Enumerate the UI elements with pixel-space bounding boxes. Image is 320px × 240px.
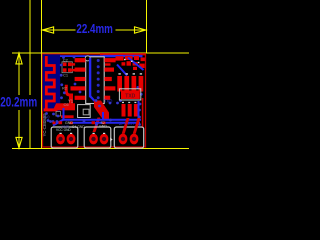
arrow down of 20.2mm bbox=[16, 137, 22, 148]
IC via column bbox=[97, 59, 100, 99]
arrow left of 22.4mm bbox=[42, 27, 53, 33]
connector P3 box bbox=[114, 127, 143, 148]
crystal Y1 inner bbox=[83, 109, 89, 115]
connector P1 box bbox=[51, 127, 78, 148]
connector P3 pad2 bbox=[130, 134, 139, 145]
red diagonal into P2 pad bbox=[93, 118, 101, 133]
dimension line vertical 20.2mm bbox=[18, 53, 20, 96]
connector P2 pad2 bbox=[100, 134, 109, 145]
arrow up of 20.2mm bbox=[16, 53, 22, 64]
polarity diamond bbox=[110, 138, 112, 142]
svg-text:S2: S2 bbox=[101, 121, 105, 125]
extent line vertical board-left bbox=[41, 0, 43, 149]
white marks above D1 pads bbox=[122, 102, 136, 103]
svg-text:20.2mm: 20.2mm bbox=[0, 94, 37, 109]
red wedge trace bbox=[94, 101, 109, 120]
traces to IC pads bbox=[72, 63, 76, 65]
svg-text:YC-CB0809: YC-CB0809 bbox=[42, 113, 48, 136]
header J1 vertical bars bbox=[117, 76, 143, 92]
svg-text:R2: R2 bbox=[62, 86, 68, 91]
extent line vertical left-outer bbox=[12, 0, 189, 149]
svg-text:Y1: Y1 bbox=[68, 99, 74, 104]
crystal Y1 outline bbox=[78, 105, 91, 118]
connector P1 pad2 bbox=[67, 134, 76, 145]
connector P3 pad1 bbox=[119, 134, 128, 145]
IC left pads 5 rows bbox=[71, 58, 86, 100]
tantalum cap D1 red body bbox=[121, 90, 140, 99]
arrow right of 22.4mm bbox=[135, 27, 146, 33]
svg-text:GND: GND bbox=[62, 125, 70, 129]
antenna meander trace bbox=[46, 56, 54, 110]
blue diagonal out of IC bbox=[90, 96, 104, 111]
connector P2 box bbox=[84, 127, 111, 148]
extent line vertical board-right bbox=[145, 0, 147, 53]
svg-text:2PY-KIT: 2PY-KIT bbox=[119, 121, 135, 126]
IC U1 body bbox=[86, 57, 105, 104]
connector P1 pad1 bbox=[56, 134, 65, 145]
IC right pads 5 rows bbox=[104, 58, 115, 100]
vias bbox=[45, 56, 141, 126]
IC inner blue stripe bbox=[89, 58, 91, 98]
top-right pad cluster bbox=[116, 56, 145, 70]
white plus marks above pads bbox=[60, 133, 106, 134]
svg-text:C1: C1 bbox=[63, 72, 69, 77]
header white marks bbox=[118, 73, 142, 74]
board outline top-right thick segment bbox=[100, 53, 146, 55]
red trace left-bottom bbox=[61, 115, 74, 118]
IC pin1 circle bbox=[85, 56, 90, 61]
svg-text:GND: GND bbox=[99, 125, 107, 129]
white specks in cluster bbox=[124, 59, 139, 63]
red trace right-edge bbox=[142, 98, 144, 128]
svg-text:TXD: TXD bbox=[125, 93, 135, 99]
antenna bottom rung bbox=[44, 108, 58, 111]
dimension text 22.4mm bbox=[76, 23, 115, 36]
vias near D1 bbox=[119, 86, 143, 102]
extent line horizontal top bbox=[12, 52, 189, 54]
board outline bbox=[43, 54, 146, 147]
dimension text 20.2mm bbox=[0, 95, 39, 110]
antenna feed thick trace bbox=[53, 104, 74, 111]
capacitor block C1/C2 2x2 pads bbox=[63, 63, 75, 72]
red T stub to feed bar bbox=[69, 95, 73, 104]
connector P2 pad1 bbox=[89, 134, 98, 145]
extent line horizontal bottom bbox=[12, 148, 189, 150]
svg-text:C4 GND: C4 GND bbox=[72, 125, 85, 129]
dimension line horizontal 22.4mm bbox=[42, 29, 76, 31]
top blue trace bbox=[60, 55, 105, 57]
red J trace bbox=[66, 85, 73, 95]
bottom blue traces bbox=[53, 101, 141, 126]
svg-text:22.4mm: 22.4mm bbox=[76, 21, 113, 36]
red marks above connectors bbox=[53, 118, 141, 134]
capacitor block outline bbox=[62, 62, 72, 73]
antenna ground pour bbox=[43, 54, 61, 111]
pads under D1 bbox=[122, 104, 138, 117]
blue diagonal traces top-right bbox=[117, 58, 144, 76]
tantalum cap D1 outline bbox=[119, 89, 140, 100]
